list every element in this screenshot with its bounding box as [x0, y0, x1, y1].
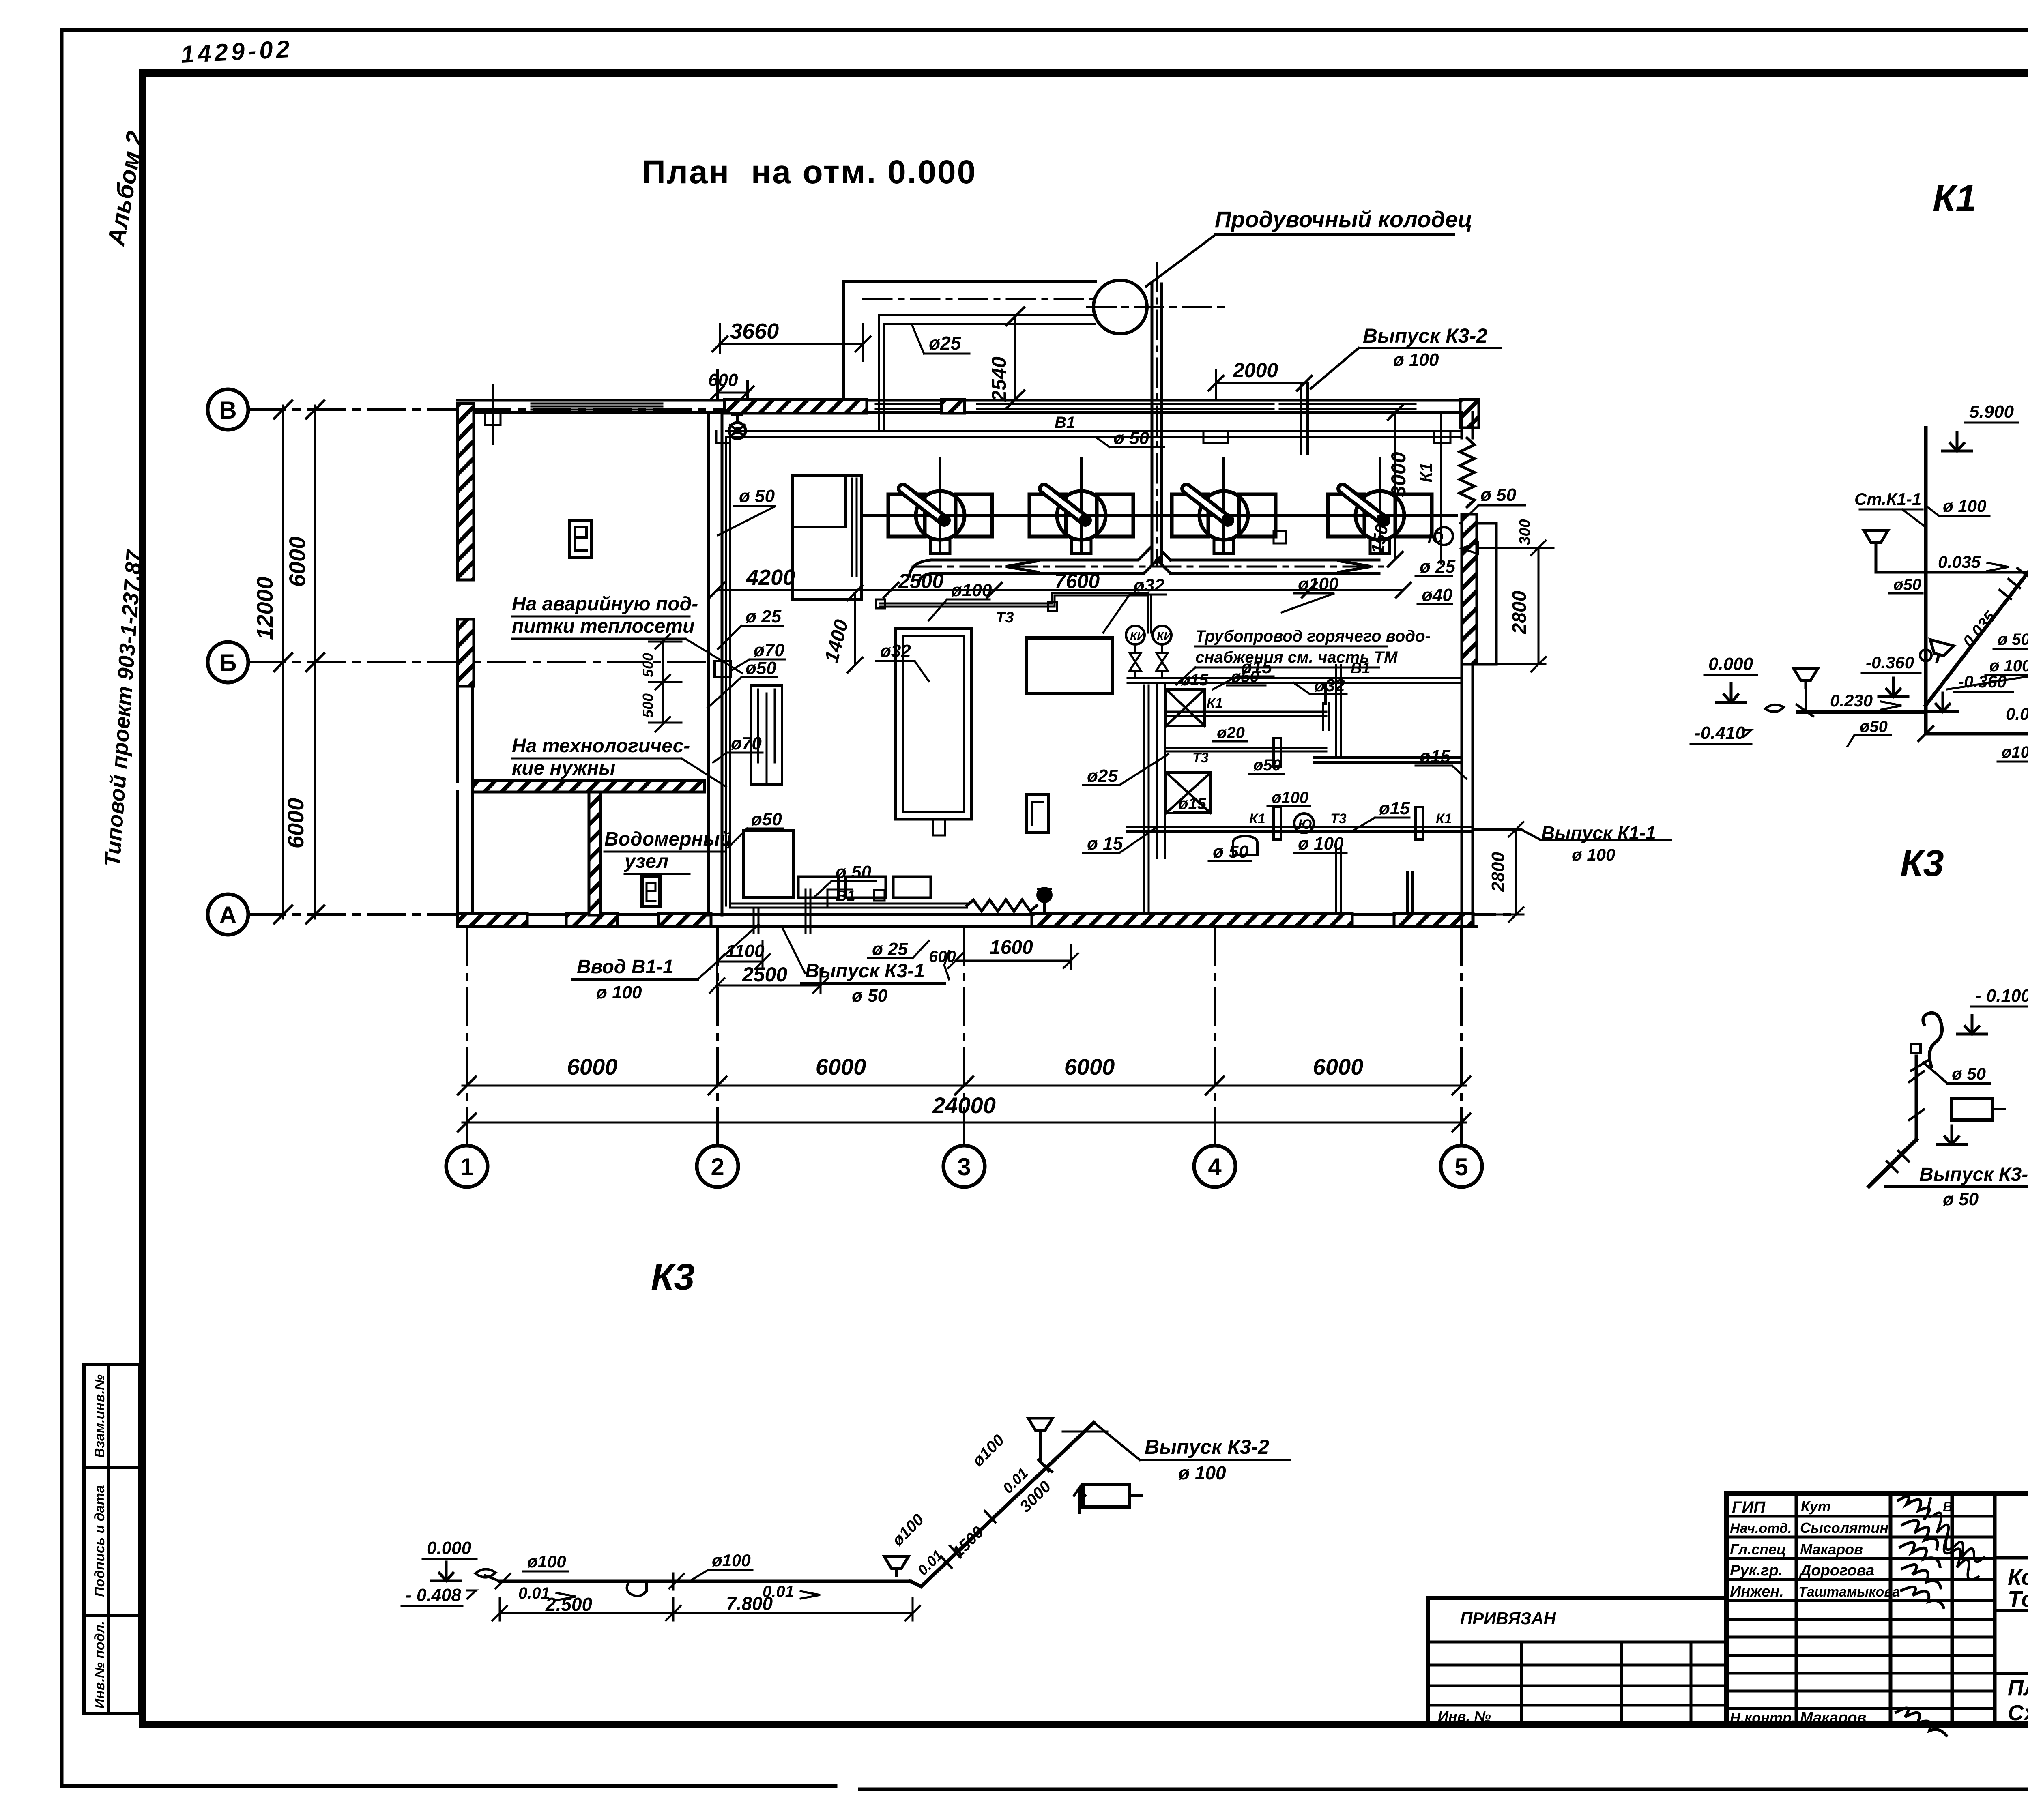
svg-text:ø50: ø50 — [1893, 576, 1921, 594]
column 2 circle — [697, 1146, 738, 1187]
right wall lower double line — [1462, 664, 1473, 927]
K1 stack vertical pipe — [1924, 428, 1928, 712]
svg-text:- 0.408: - 0.408 — [406, 1585, 462, 1605]
vypusk K3-1 riser — [806, 889, 810, 933]
manometer KI 2 — [1153, 626, 1171, 644]
svg-text:3: 3 — [957, 1153, 971, 1180]
dim 1100 — [717, 961, 763, 963]
svg-text:ø15: ø15 — [1420, 747, 1450, 766]
chevron arrow left — [1006, 561, 1038, 572]
svg-text:ø15: ø15 — [1178, 795, 1207, 813]
deaerator column double rect — [896, 629, 971, 819]
svg-text:300: 300 — [1517, 519, 1534, 545]
column 3 axis line — [963, 929, 965, 1146]
outer loop pipe — [843, 282, 1095, 399]
gauge stand — [751, 685, 782, 785]
svg-text:Инжен.: Инжен. — [1730, 1583, 1784, 1600]
svg-text:2540: 2540 — [988, 356, 1010, 402]
svg-text:ø25: ø25 — [929, 333, 962, 354]
junction circle on stack — [1920, 650, 1931, 661]
right branch pipe — [1926, 732, 2028, 736]
floor drain box — [874, 890, 885, 901]
svg-text:Выпуск К3-1: Выпуск К3-1 — [1919, 1164, 2028, 1185]
svg-text:На аварийную под-: На аварийную под- — [512, 593, 698, 615]
symbol Yu circle — [1435, 527, 1453, 545]
svg-text:В1: В1 — [1351, 660, 1371, 677]
svg-text:А: А — [219, 901, 236, 929]
dim 3660 — [720, 343, 863, 345]
svg-text:3660: 3660 — [730, 319, 779, 343]
sink at start — [475, 1569, 500, 1581]
stage band — [1995, 1610, 2028, 1726]
water meter unit rect — [743, 831, 793, 898]
manifold left elbow — [909, 560, 931, 582]
K3-1 outlet jog — [827, 889, 852, 908]
svg-text:В: В — [1943, 1499, 1953, 1515]
svg-text:5: 5 — [1454, 1153, 1468, 1180]
svg-text:6000: 6000 — [283, 798, 308, 849]
svg-text:Ст.К1-1: Ст.К1-1 — [1854, 489, 1921, 509]
interior wall vertical col2 — [709, 412, 722, 915]
bottom wall hatched segments — [458, 914, 527, 927]
dim 2500 — [717, 985, 821, 987]
left wall lower double line — [458, 792, 473, 915]
K1 riser line — [1440, 412, 1442, 564]
svg-text:Выпуск К3-2: Выпуск К3-2 — [1145, 1436, 1269, 1458]
dim 1400 vertical — [854, 593, 856, 665]
svg-text:ø 50: ø 50 — [852, 986, 888, 1006]
partition sanitary vertical 1 — [1336, 665, 1341, 758]
ticks on diagonal — [2000, 568, 2028, 599]
svg-text:1100: 1100 — [726, 941, 765, 961]
column 4 circle — [1194, 1146, 1235, 1187]
svg-text:Таштамыкова: Таштамыкова — [1798, 1584, 1900, 1600]
column 1 circle — [446, 1146, 488, 1187]
bottom wall base lines — [458, 914, 1476, 927]
diagonal outlet — [1869, 1140, 1916, 1186]
svg-text:Выпуск К3-2: Выпуск К3-2 — [1363, 324, 1487, 347]
svg-text:6000: 6000 — [284, 537, 310, 587]
svg-text:ø 25: ø 25 — [745, 607, 782, 627]
outer border — [62, 30, 1602, 308]
right wall pilaster — [1477, 523, 1496, 664]
funnel at top of riser — [1028, 1418, 1053, 1438]
svg-text:ø 50: ø 50 — [1480, 485, 1517, 505]
svg-text:Сысолятин: Сысолятин — [1800, 1520, 1888, 1536]
column 2 axis line — [716, 929, 719, 1146]
svg-text:ø 50: ø 50 — [739, 486, 775, 506]
partition vertical 3 — [1407, 872, 1412, 914]
partition sanitary horizontal — [1314, 758, 1462, 762]
svg-text:ø50: ø50 — [751, 809, 782, 829]
svg-text:ø 50: ø 50 — [1213, 842, 1249, 862]
top wall base lines — [458, 400, 1476, 412]
horizontal pipe K1 mid — [1165, 712, 1326, 716]
svg-text:0.035: 0.035 — [1938, 552, 1981, 571]
vvod V1-1 riser — [754, 908, 758, 933]
symbol B room 2 — [642, 877, 660, 907]
wall sleeve box — [715, 661, 731, 677]
svg-text:К1: К1 — [1207, 695, 1223, 711]
svg-text:Взам.инв.№: Взам.инв.№ — [92, 1374, 107, 1458]
loop centerline dash-dot — [863, 298, 1095, 300]
svg-text:500: 500 — [640, 693, 656, 718]
svg-text:Рук.гр.: Рук.гр. — [1730, 1562, 1783, 1579]
economizer tall rect — [792, 475, 861, 600]
svg-text:0.230: 0.230 — [1830, 691, 1873, 710]
column 5 circle — [1441, 1146, 1482, 1187]
partition sanitary vertical 2 — [1336, 848, 1341, 914]
axis line V — [248, 408, 836, 411]
left wall hatched segment middle — [458, 619, 474, 686]
boiler 2 — [1004, 459, 1158, 554]
svg-text:ø15: ø15 — [1379, 798, 1410, 818]
svg-text:ø50: ø50 — [1253, 756, 1281, 774]
sanitary riser vertical double — [1157, 683, 1165, 858]
interior wall vertical hatched — [589, 792, 600, 915]
boiler 3 — [1147, 459, 1301, 554]
svg-text:Макаров: Макаров — [1800, 1709, 1867, 1726]
pump dot top-left — [729, 423, 745, 439]
axis row A circle — [208, 894, 248, 935]
right wall hatched segment — [1462, 514, 1477, 664]
svg-text:0.000: 0.000 — [427, 1538, 472, 1558]
svg-text:К1: К1 — [1416, 462, 1435, 482]
svg-text:5.900: 5.900 — [1969, 402, 2014, 422]
svg-text:К3: К3 — [1900, 843, 1944, 884]
dim 2000 — [1216, 382, 1304, 384]
svg-text:Н.контр.: Н.контр. — [1730, 1709, 1796, 1726]
svg-text:ø100: ø100 — [951, 580, 992, 600]
second riser — [1144, 685, 1149, 912]
svg-text:4200: 4200 — [746, 565, 795, 590]
top wall hatched segment 1 — [724, 399, 867, 413]
svg-text:Дорогова: Дорогова — [1799, 1562, 1874, 1579]
left wall hatched segment upper — [458, 403, 474, 580]
valve dot bottom — [1036, 887, 1053, 903]
svg-text:1600: 1600 — [990, 937, 1033, 958]
svg-text:ø 100: ø 100 — [1943, 496, 1986, 515]
blowdown well circle — [1093, 280, 1147, 334]
outfall rect K3-2 — [1083, 1485, 1130, 1507]
svg-text:ø15: ø15 — [1180, 671, 1209, 689]
ticks dim2 — [458, 1114, 1470, 1131]
svg-text:4: 4 — [1208, 1153, 1222, 1180]
svg-text:ø50: ø50 — [1860, 718, 1888, 736]
svg-text:2500: 2500 — [898, 570, 943, 592]
dim 2800 right lower — [1515, 829, 1517, 914]
svg-text:ГИП: ГИП — [1732, 1498, 1766, 1516]
svg-text:Нач.отд.: Нач.отд. — [1730, 1521, 1792, 1536]
ticks — [274, 401, 324, 923]
dim 2800 right upper — [1538, 548, 1540, 664]
svg-text:2.500: 2.500 — [545, 1594, 593, 1615]
inner loop pipe double — [879, 315, 1096, 399]
svg-text:питки теплосети: питки теплосети — [512, 616, 694, 637]
small box symbol right — [1274, 531, 1286, 543]
svg-text:- 0.100: - 0.100 — [1975, 986, 2028, 1006]
vypusk K1-1 right note — [1473, 829, 1671, 840]
svg-text:ø 50: ø 50 — [1943, 1189, 1979, 1209]
dim 2540 vertical — [1014, 316, 1016, 399]
svg-text:7.800: 7.800 — [726, 1593, 773, 1614]
svg-text:ø25: ø25 — [1087, 766, 1118, 786]
svg-text:ø32: ø32 — [880, 641, 911, 661]
svg-text:2500: 2500 — [742, 963, 787, 986]
svg-text:ø 50: ø 50 — [1952, 1064, 1986, 1083]
dim row 4200/2500/7600 — [717, 589, 1403, 591]
svg-text:ø 50: ø 50 — [1113, 428, 1149, 448]
svg-text:КИ: КИ — [1130, 630, 1145, 642]
svg-text:кие нужны: кие нужны — [512, 758, 615, 779]
well riser centerline — [1156, 263, 1158, 567]
svg-text:500: 500 — [640, 653, 656, 677]
interior wall horizontal hatched — [473, 781, 705, 792]
svg-text:К3: К3 — [651, 1256, 695, 1298]
svg-text:Топливо - печное бытовое: Топливо - печное бытовое — [2008, 1586, 2028, 1612]
well riser pipe double — [1152, 284, 1162, 564]
manifold double pipe — [931, 546, 1162, 573]
svg-text:Ввод В1-1: Ввод В1-1 — [577, 956, 674, 978]
svg-text:Ю: Ю — [1298, 817, 1312, 832]
svg-text:ø 25: ø 25 — [1420, 557, 1456, 577]
vertical pipe — [1915, 1056, 1918, 1140]
svg-text:Выпуск К3-1: Выпуск К3-1 — [805, 960, 925, 982]
column 3 circle — [943, 1146, 985, 1187]
line under designation — [1995, 1556, 2028, 1560]
three small tanks — [798, 877, 838, 898]
manifold centerline — [913, 566, 1383, 568]
svg-text:2800: 2800 — [1509, 590, 1530, 634]
svg-text:ø 100: ø 100 — [1393, 350, 1439, 370]
svg-text:ПРИВЯЗАН: ПРИВЯЗАН — [1460, 1609, 1557, 1628]
svg-text:ø100: ø100 — [712, 1551, 751, 1570]
diagonal branch up-right — [1926, 560, 2028, 705]
ticks on right pipe — [1918, 726, 2028, 741]
faucet squiggle — [1923, 1013, 1942, 1067]
svg-text:ø 100: ø 100 — [1178, 1462, 1226, 1483]
axis line B — [248, 661, 710, 663]
svg-text:ø 15: ø 15 — [1087, 834, 1123, 854]
svg-text:3000: 3000 — [1387, 452, 1410, 497]
svg-text:ø100: ø100 — [527, 1552, 566, 1571]
dim line 6000+6000 — [314, 406, 316, 919]
downpipe mark at window — [485, 385, 501, 444]
signature table columns — [1796, 1493, 1995, 1726]
V1 bottom horizontal pipe — [730, 904, 967, 908]
svg-text:ø100: ø100 — [2002, 743, 2028, 761]
boiler 4 — [1303, 459, 1457, 554]
left margin stamp table — [84, 1364, 140, 1713]
column 4 axis line — [1214, 929, 1216, 1146]
storage rect room B — [1026, 638, 1112, 694]
signature scribbles — [1898, 1496, 1944, 1608]
dim line 24000 — [462, 1122, 1466, 1124]
WC symbol — [1233, 836, 1257, 855]
svg-text:ø 100: ø 100 — [1572, 845, 1615, 864]
small trap mid — [627, 1581, 647, 1596]
svg-text:-0.360: -0.360 — [1958, 672, 2007, 691]
V1 pipe top horizontal — [726, 431, 1462, 437]
left wall double line below hatch — [458, 686, 473, 782]
svg-text:Водомерный: Водомерный — [604, 828, 732, 850]
svg-text:КИ: КИ — [1157, 630, 1172, 642]
svg-text:Схемы систем К1 ; К3: Схемы систем К1 ; К3 — [2008, 1701, 2028, 1725]
svg-text:ø 50: ø 50 — [836, 862, 872, 882]
svg-text:6000: 6000 — [567, 1054, 618, 1080]
svg-text:Инв.№ подл.: Инв.№ подл. — [92, 1621, 107, 1709]
ticks — [496, 1573, 684, 1590]
top wall hatched segment 2 — [941, 399, 965, 413]
manometer KI 1 — [1126, 626, 1145, 644]
svg-text:600: 600 — [929, 948, 956, 966]
svg-text:К1: К1 — [1249, 811, 1265, 826]
ticks on diagonal — [941, 1460, 1049, 1568]
svg-text:2: 2 — [711, 1153, 724, 1180]
vertical V1 main at wall — [726, 437, 730, 906]
vypusk K3-2 outlet pipe — [1301, 383, 1308, 454]
svg-text:-0.360: -0.360 — [1866, 653, 1914, 672]
leader to well — [1146, 234, 1216, 286]
svg-text:Кут: Кут — [1801, 1498, 1831, 1515]
dim 3000 vertical right — [1394, 412, 1396, 559]
dim line 2500/7800 — [500, 1612, 913, 1614]
right wall expansion zigzag — [1460, 438, 1474, 507]
arrow into wall right — [1462, 543, 1553, 554]
axis row B circle — [208, 642, 248, 682]
top wall window lines — [531, 403, 662, 410]
svg-text:ø70: ø70 — [731, 734, 762, 753]
svg-text:В: В — [219, 397, 236, 424]
svg-text:12000: 12000 — [252, 577, 277, 640]
signature table rows — [1727, 1516, 1995, 1708]
expansion zigzag bottom — [967, 900, 1037, 911]
chevron arrow right — [1338, 561, 1371, 572]
symbol B room 1 — [569, 520, 591, 557]
dim line 6000 x4 — [462, 1085, 1466, 1087]
svg-text:ø 50: ø 50 — [1998, 631, 2028, 648]
svg-text:2000: 2000 — [1233, 359, 1278, 382]
axis line A — [248, 913, 1517, 916]
svg-text:ø50: ø50 — [1231, 668, 1259, 686]
svg-text:Б: Б — [219, 649, 236, 676]
washbasin X box 2 — [1166, 773, 1211, 813]
svg-text:Трубопровод горячего водо-: Трубопровод горячего водо- — [1195, 627, 1431, 645]
funnel before riser — [884, 1556, 909, 1576]
svg-text:ø50: ø50 — [745, 658, 776, 678]
top wall hatched corner segment — [1460, 399, 1479, 428]
left branch pipe — [1798, 710, 1926, 714]
svg-text:-0.410: -0.410 — [1695, 723, 1745, 743]
column 5 axis line — [1460, 929, 1463, 1146]
svg-text:1: 1 — [460, 1153, 473, 1180]
dims 500 500 — [649, 634, 681, 732]
svg-text:ø 100: ø 100 — [1298, 834, 1344, 854]
column 1 axis line — [466, 929, 468, 1146]
ticks dim1 — [458, 1077, 1470, 1095]
svg-text:Выпуск К1-1: Выпуск К1-1 — [1541, 822, 1656, 843]
svg-text:Макаров: Макаров — [1800, 1541, 1863, 1558]
svg-text:Т3: Т3 — [1192, 750, 1209, 766]
axis row V circle — [208, 389, 248, 430]
small funnel at junction — [1925, 640, 1954, 665]
svg-text:Гл.спец: Гл.спец — [1730, 1541, 1786, 1558]
svg-text:К1: К1 — [1933, 178, 1976, 219]
svg-text:6000: 6000 — [1313, 1054, 1364, 1080]
svg-text:План на отм. 0.000: План на отм. 0.000 — [642, 154, 977, 191]
riser diagonal — [921, 1423, 1094, 1586]
svg-text:Инв. №: Инв. № — [1438, 1708, 1491, 1725]
svg-text:Подпись и дата: Подпись и дата — [92, 1485, 107, 1597]
svg-text:Т3: Т3 — [996, 609, 1014, 626]
svg-text:ø32: ø32 — [1314, 676, 1345, 695]
dim line 12000 — [282, 406, 284, 919]
svg-text:Ю: Ю — [1428, 529, 1444, 546]
svg-text:На технологичес-: На технологичес- — [512, 735, 690, 757]
svg-text:К1: К1 — [1436, 811, 1452, 826]
svg-text:ø 25: ø 25 — [872, 939, 908, 959]
svg-text:Продувочный колодец: Продувочный колодец — [1215, 206, 1472, 232]
outfall rect K3 — [1952, 1098, 1993, 1120]
svg-text:0.000: 0.000 — [1708, 654, 1753, 674]
title block outline — [1727, 1493, 2028, 1726]
svg-text:7600: 7600 — [1055, 570, 1100, 592]
right wall top double line — [1462, 412, 1473, 438]
svg-text:0.035: 0.035 — [2006, 704, 2028, 723]
main horizontal pipe — [500, 1580, 910, 1583]
svg-text:6000: 6000 — [816, 1054, 866, 1080]
svg-text:узел: узел — [624, 851, 668, 872]
washbasin X box 1 — [1166, 689, 1205, 726]
svg-text:ø70: ø70 — [754, 640, 784, 660]
svg-text:ø 100: ø 100 — [596, 983, 642, 1002]
boiler 1 — [863, 459, 1017, 554]
svg-text:24000: 24000 — [932, 1092, 996, 1118]
riser pair crossing top wall — [879, 381, 884, 431]
horizontal pipe T3 mid — [1165, 748, 1326, 751]
fixture rects right — [1323, 685, 1329, 730]
funnel top left — [1864, 530, 1888, 550]
T3 stepped pipe — [880, 593, 1151, 633]
funnel on diagonal top — [2020, 532, 2028, 562]
svg-text:6000: 6000 — [1064, 1054, 1115, 1080]
svg-text:ø40: ø40 — [1422, 585, 1452, 605]
svg-text:ø20: ø20 — [1217, 724, 1245, 742]
V1 pipe jogs below top wall — [716, 431, 730, 443]
svg-text:2800: 2800 — [1488, 852, 1508, 892]
svg-text:ø100: ø100 — [1298, 574, 1339, 594]
symbol G — [1026, 795, 1048, 832]
svg-text:План на отметке 0.000: План на отметке 0.000 — [2008, 1676, 2028, 1700]
sink trap left — [1765, 705, 1784, 712]
svg-text:В1: В1 — [1055, 414, 1075, 431]
well axis dash-dot horizontal — [1087, 306, 1229, 308]
svg-text:ø100: ø100 — [1272, 789, 1308, 807]
horizontal pipe bottom K1/T3 to wall — [1128, 827, 1473, 831]
V1 pipe to sanitary — [1128, 678, 1462, 683]
svg-text:Т3: Т3 — [1330, 811, 1347, 826]
top bend — [1094, 1423, 1140, 1460]
